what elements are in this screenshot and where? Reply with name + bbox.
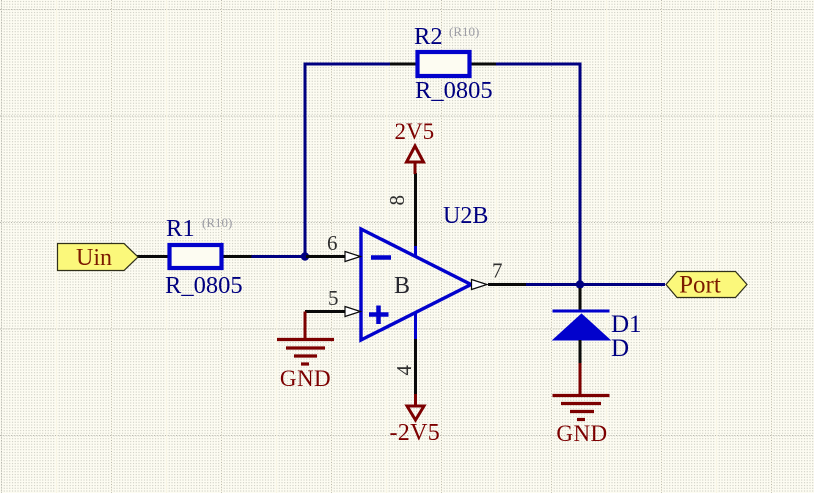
svg-text:8: 8 [385,195,409,206]
op-amp U2B [361,203,488,340]
pin 6 [306,231,361,262]
svg-text:Port: Port [679,272,721,299]
svg-text:D: D [611,335,629,362]
svg-text:R2: R2 [414,23,443,50]
ground (diode) [553,363,610,446]
wire feedback left vertical [305,64,390,257]
junction node A [301,252,309,260]
pin 7 [472,259,527,290]
resistor R1 [137,215,252,299]
svg-text:R1: R1 [166,215,195,242]
svg-text:GND: GND [280,366,331,391]
port Port [666,272,747,299]
diode D1 [553,288,642,363]
svg-text:5: 5 [328,286,339,310]
pin 5 [305,286,361,317]
svg-text:GND: GND [556,421,607,446]
svg-text:-2V5: -2V5 [390,420,441,446]
svg-text:Uin: Uin [76,245,112,271]
svg-text:B: B [394,273,410,299]
power 2V5 [395,119,435,174]
svg-text:2V5: 2V5 [395,119,435,144]
svg-text:R_0805: R_0805 [165,272,243,299]
svg-text:D1: D1 [611,311,642,338]
port Uin [58,244,139,272]
svg-text:R_0805: R_0805 [415,77,493,104]
svg-text:(R10): (R10) [202,215,232,230]
power -2V5 [390,394,441,446]
ground (pin 5) [277,312,334,392]
wire R1 to junction [251,255,306,258]
wire feedback right vertical [496,64,580,285]
wire output to Port [526,283,665,286]
svg-text:4: 4 [392,365,416,376]
svg-text:U2B: U2B [443,203,488,229]
svg-text:(R10): (R10) [449,24,479,39]
pin 8 [385,173,416,257]
svg-text:6: 6 [327,231,338,255]
pin 4 [392,313,416,395]
svg-text:7: 7 [492,259,503,283]
resistor R2 [390,23,496,104]
junction node B [576,280,584,288]
